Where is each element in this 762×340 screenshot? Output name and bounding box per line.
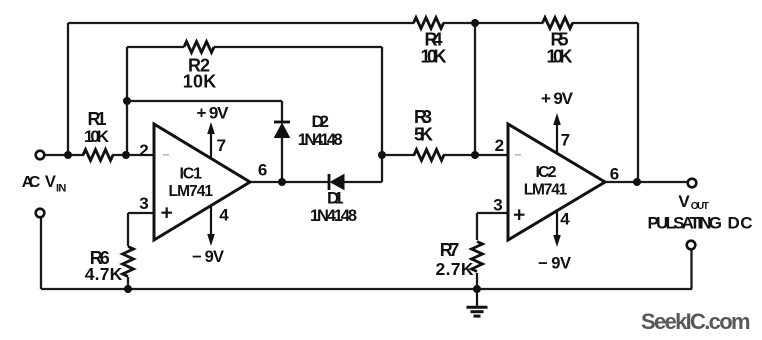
svg-text:R7: R7: [440, 240, 460, 260]
svg-text:1N4148: 1N4148: [310, 207, 357, 225]
junction R3 left node: [378, 151, 386, 159]
svg-text:4: 4: [560, 210, 570, 229]
pin 4 label IC1: [219, 205, 229, 224]
wire pin3 stub IC1 y=213: [128, 212, 154, 214]
power +9V arrow IC1 pin 7: [197, 103, 230, 158]
junction D2 upper link node: [123, 97, 131, 105]
wire R2 left vertical x=127: [126, 47, 128, 155]
svg-text:10K: 10K: [183, 72, 217, 92]
node label PULSATING DC: [648, 213, 753, 232]
node label AC VIN: [22, 173, 67, 194]
wire IC1 output row y=182: [250, 181, 382, 183]
diode D2 1N4148: [274, 112, 343, 149]
svg-text:OUT: OUT: [691, 201, 709, 212]
pin 7 label IC2: [561, 130, 570, 149]
ground: [467, 289, 488, 316]
svg-text:D1: D1: [327, 189, 344, 208]
svg-text:DC: DC: [728, 213, 753, 232]
resistor R5: [543, 18, 573, 67]
junction R4-R5 top node: [471, 19, 479, 27]
svg-text:− 9V: − 9V: [538, 255, 571, 273]
svg-text:V: V: [45, 173, 56, 191]
svg-text:V: V: [678, 192, 690, 211]
svg-text:R1: R1: [88, 109, 107, 129]
power +9V arrow IC2 pin 7: [541, 89, 574, 152]
svg-text:+ 9V: + 9V: [541, 89, 574, 108]
svg-text:7: 7: [561, 130, 570, 149]
wire below input ground terminal x=41: [40, 218, 42, 290]
resistor R4: [414, 18, 447, 67]
pin 4 label IC2: [560, 210, 570, 229]
terminal AC input top: [36, 151, 45, 160]
svg-text:D2: D2: [311, 112, 329, 131]
pin 2 label IC2: [495, 136, 504, 155]
svg-text:IC2: IC2: [536, 164, 557, 181]
resistor R1: [83, 109, 113, 161]
svg-text:6: 6: [258, 161, 267, 180]
node label VOUT: [678, 192, 708, 212]
svg-text:+ 9V: + 9V: [197, 103, 230, 122]
diode D1 1N4148: [310, 174, 357, 225]
svg-text:10K: 10K: [547, 47, 573, 67]
wire input row to pin2 IC1 y=155: [45, 154, 155, 156]
svg-text:4.7K: 4.7K: [85, 264, 123, 284]
terminal output bottom: [687, 241, 696, 250]
wire R4-R5 to pin2 IC2 vertical x=475: [474, 23, 476, 155]
wire bottom rail y=289: [41, 288, 692, 290]
wire D1/R2/R3 node vertical x=382: [381, 47, 383, 182]
wire pin3 stub IC2 y=213: [477, 212, 508, 214]
junction IC1 output node: [278, 178, 286, 186]
svg-text:4: 4: [219, 205, 229, 224]
svg-text:PULSATING: PULSATING: [648, 213, 723, 232]
pin 3 label IC2: [493, 196, 502, 215]
junction R6 bottom node: [124, 285, 132, 293]
junction pin2 IC1 node: [122, 151, 130, 159]
svg-text:SeekIC.com: SeekIC.com: [641, 309, 751, 334]
terminal AC input bottom: [36, 209, 45, 218]
pin 7 label IC1: [217, 136, 226, 155]
svg-text:LM741: LM741: [524, 182, 568, 199]
wire R7 branch vertical x=477: [476, 213, 478, 289]
pin 6 label IC1: [258, 161, 267, 180]
svg-text:LM741: LM741: [169, 183, 214, 200]
svg-text:10K: 10K: [421, 47, 447, 67]
junction IC2 output node: [633, 178, 641, 186]
pin 2 label IC1: [139, 141, 148, 160]
svg-text:IC1: IC1: [180, 166, 203, 183]
wire D2 branch vertical x=282: [281, 101, 283, 182]
wire R2 feedback top y=47: [127, 46, 382, 48]
op-amp U1 IC1 LM741: [154, 124, 250, 240]
wire R6 branch vertical x=128: [127, 213, 129, 289]
wire R3 row y=155: [382, 154, 508, 156]
wire top rail y=23: [68, 22, 638, 24]
svg-text:10K: 10K: [84, 127, 110, 146]
power -9V arrow IC2 pin 4: [538, 210, 571, 273]
resistor R7: [436, 240, 483, 279]
power -9V arrow IC1 pin 4: [192, 205, 224, 266]
wire top-right corner down x=638: [637, 23, 639, 182]
resistor R6: [85, 247, 134, 284]
wire D2 upper link y=101: [127, 100, 282, 102]
svg-text:1N4148: 1N4148: [298, 131, 343, 149]
op-amp U2 IC2 LM741: [508, 124, 605, 240]
junction R7 bottom node: [473, 285, 481, 293]
svg-text:2.7K: 2.7K: [436, 259, 474, 279]
wire left vertical x=68: [67, 23, 69, 155]
svg-text:IN: IN: [56, 182, 66, 194]
wire below output lower terminal x=692: [690, 250, 693, 290]
svg-text:7: 7: [217, 136, 226, 155]
junction pin2 IC2 node: [471, 151, 479, 159]
resistor R2: [183, 42, 217, 92]
watermark SeekIC.com: [641, 309, 751, 334]
svg-text:3: 3: [139, 194, 148, 213]
svg-text:AC: AC: [22, 174, 41, 191]
wire IC2 output row y=182: [605, 181, 688, 183]
svg-text:2: 2: [495, 136, 504, 155]
svg-text:6: 6: [610, 165, 619, 184]
pin 6 label IC2: [610, 165, 619, 184]
svg-text:5K: 5K: [414, 125, 433, 145]
resistor R3: [414, 107, 444, 161]
junction input node: [64, 151, 72, 159]
svg-text:2: 2: [139, 141, 148, 160]
terminal output top: [688, 179, 697, 188]
svg-text:3: 3: [493, 196, 502, 215]
pin 3 label IC1: [139, 194, 148, 213]
svg-text:− 9V: − 9V: [192, 248, 224, 266]
